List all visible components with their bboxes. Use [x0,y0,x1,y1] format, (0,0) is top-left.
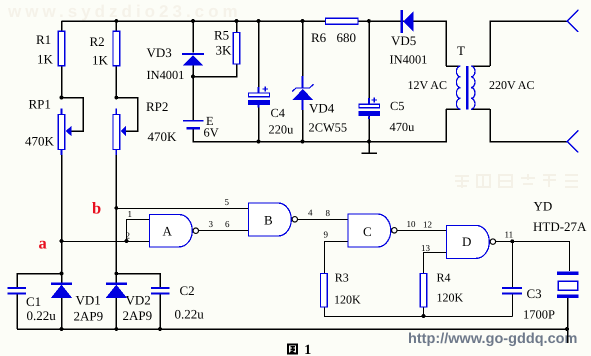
svg-text:b: b [92,199,101,218]
svg-text:1K: 1K [37,52,54,67]
wire pin9 to R3 [325,242,349,274]
junction C1 VD1 [60,272,64,276]
wire mid rail [193,109,446,142]
svg-text:2AP9: 2AP9 [123,308,153,323]
svg-text:VD5: VD5 [391,33,416,48]
svg-text:5: 5 [225,197,230,207]
wire gate C out to D pin12 [397,230,447,232]
potentiometer RP1 [58,115,65,150]
watermark middle chinese [455,174,578,188]
capacitor C2 [151,283,204,322]
capacitor C5 [359,97,415,134]
NAND gate D [447,225,496,258]
capacitor C1 [8,288,57,323]
svg-text:8: 8 [326,208,331,218]
diode VD1 [51,283,103,324]
svg-text:6: 6 [225,219,230,229]
svg-text:220V AC: 220V AC [489,78,534,92]
svg-text:www.sydzdio23.com: www.sydzdio23.com [7,2,242,21]
junction VD2 bottom rail [114,327,118,331]
svg-text:http://www.go-gddq.com: http://www.go-gddq.com [408,331,577,347]
wire a to gate A pin2 [62,241,150,243]
svg-text:C5: C5 [390,99,404,113]
wire RP1 wiper loop [62,98,84,132]
svg-text:C3: C3 [527,286,542,301]
svg-text:0.22u: 0.22u [27,308,57,323]
node a junction [60,239,64,243]
svg-text:YD: YD [534,199,553,214]
svg-text:12: 12 [423,220,432,230]
resistor R4 [420,274,427,308]
zener diode VD4 [292,76,347,135]
wire 220V bottom lead [490,109,567,142]
junction RP1 wiper [60,96,64,100]
svg-text:T: T [457,43,465,58]
wire b to gate B pin5 [116,208,248,210]
svg-text:R6: R6 [311,30,327,45]
junction VD4 top rail [301,19,305,23]
svg-text:1: 1 [128,209,133,219]
svg-text:2CW55: 2CW55 [309,121,348,135]
svg-text:470K: 470K [148,129,178,144]
figure label 图 1 [288,343,311,356]
wire C5 branch [368,21,370,142]
svg-text:120K: 120K [437,291,464,305]
svg-text:C: C [363,224,372,239]
resistor R6 [326,18,359,24]
junction C5 ground mid rail [367,140,371,144]
junction R5 top rail [235,19,239,23]
svg-text:IN4001: IN4001 [390,53,428,67]
resistor R3 [321,274,328,308]
svg-text:10: 10 [407,219,417,229]
wire pin13 to R4 [424,253,447,274]
svg-text:2: 2 [126,231,131,241]
svg-text:0.22u: 0.22u [175,307,205,322]
svg-text:VD3: VD3 [147,45,172,60]
junction VD3 R5 [191,75,195,79]
junction C4 top rail [257,19,261,23]
svg-text:R5: R5 [214,28,229,43]
wire RP2 wiper loop [116,98,137,132]
svg-text:220u: 220u [269,123,294,137]
wire transformer stubs [446,66,490,109]
svg-text:470u: 470u [390,120,415,134]
svg-text:C4: C4 [271,106,285,120]
junction VD1 bottom rail [60,327,64,331]
resistor R1 [58,31,65,66]
svg-text:9: 9 [324,230,329,240]
junction gate A pin1 pin2 [125,239,129,243]
diode VD2 [106,283,153,323]
junction C5 VD5 top rail [367,19,371,23]
wire gate B out to C pin8 [298,219,349,221]
svg-text:120K: 120K [334,293,361,307]
svg-text:3: 3 [209,219,214,229]
wire bottom rail [17,328,567,330]
diode VD3 [147,45,205,82]
svg-text:6V: 6V [204,126,219,140]
svg-text:C1: C1 [26,294,41,309]
svg-text:VD2: VD2 [126,293,151,308]
transformer T [408,43,535,109]
wire C1 leads [17,274,62,330]
connector chevron top [567,10,579,32]
wire R5 branch [193,21,237,77]
svg-text:680: 680 [337,30,357,45]
wire VD3 branch [192,21,194,120]
svg-text:RP2: RP2 [146,99,168,114]
NAND gate A [150,215,199,247]
wire gate D out to YD [496,241,570,271]
svg-text:RP1: RP1 [29,97,51,112]
junction R2 top rail [114,19,118,23]
NAND gate C [348,214,397,247]
svg-text:IN4001: IN4001 [147,68,185,82]
svg-text:VD4: VD4 [309,101,335,116]
svg-text:VD1: VD1 [76,293,101,308]
svg-text:13: 13 [421,243,431,253]
wire C2 leads [116,274,160,330]
junction R4 net [422,314,426,318]
connector chevron bottom [567,131,579,153]
node b junction [114,206,118,210]
wire top rail [62,21,447,66]
svg-text:12V AC: 12V AC [408,78,447,92]
wire R1 branch vertical [61,21,63,329]
svg-text:1: 1 [304,343,311,356]
wire R2 branch vertical [115,21,117,329]
svg-text:B: B [264,213,273,228]
svg-text:R3: R3 [335,271,349,285]
svg-text:A: A [163,224,173,239]
capacitor C4 [248,86,293,136]
svg-text:11: 11 [505,230,514,240]
capacitor C3 [502,286,555,322]
junction VD4 mid rail [301,140,305,144]
wire R3 R4 C3 bottom net [324,294,513,317]
NAND gate B [249,203,298,236]
wire gate A pin1 stub [126,220,150,242]
svg-text:R2: R2 [90,34,105,49]
wire YD bottom lead [567,298,569,343]
potentiometer RP2 [113,115,120,150]
junction C2 VD2 [114,272,118,276]
wire C3 top lead [512,242,514,288]
ground [362,142,378,154]
wire 220V top lead [490,21,567,66]
svg-text:3K: 3K [216,43,233,58]
svg-text:2AP9: 2AP9 [74,309,104,324]
resistor R2 [113,31,120,66]
piezo sounder YD HTD-27A [533,199,587,299]
svg-text:a: a [39,234,47,253]
svg-text:1K: 1K [92,53,109,68]
wire gate A out to B pin6 [199,230,249,232]
svg-text:4: 4 [308,208,313,218]
svg-text:470K: 470K [25,134,55,149]
svg-text:1700P: 1700P [523,308,555,322]
wire VD4 branch [302,21,304,142]
wire C4 branch [258,21,260,142]
battery E [183,114,219,140]
junction C4 mid rail [257,140,261,144]
svg-text:C2: C2 [180,283,195,298]
svg-text:HTD-27A: HTD-27A [533,219,587,234]
junction YD bottom rail [565,327,569,331]
junction RP2 wiper [114,96,118,100]
junction C2 bottom rail [158,327,162,331]
junction VD3 top rail [191,19,195,23]
svg-text:D: D [462,234,471,249]
svg-text:R1: R1 [36,32,51,47]
diode VD5 [390,10,428,66]
svg-text:R4: R4 [437,271,451,285]
junction pin11 C3 [511,239,515,243]
resistor R5 [233,33,240,65]
